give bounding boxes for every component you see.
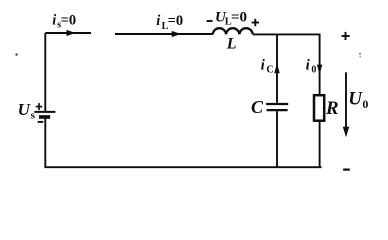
- svg-text:C: C: [251, 97, 264, 117]
- svg-text:0: 0: [362, 97, 368, 111]
- svg-text:i: i: [52, 12, 56, 28]
- svg-text:i: i: [156, 13, 160, 29]
- svg-text:=0: =0: [168, 13, 184, 29]
- svg-text:=0: =0: [231, 9, 247, 25]
- svg-text:U: U: [18, 100, 31, 119]
- svg-text:C: C: [266, 65, 273, 76]
- svg-text:R: R: [325, 98, 339, 119]
- svg-text:i: i: [306, 58, 311, 74]
- svg-text:i: i: [261, 58, 266, 74]
- svg-text:L: L: [226, 36, 237, 53]
- svg-text:s: s: [31, 109, 36, 121]
- svg-text:=0: =0: [61, 12, 77, 28]
- svg-text:0: 0: [311, 65, 316, 76]
- svg-text:U: U: [348, 88, 363, 109]
